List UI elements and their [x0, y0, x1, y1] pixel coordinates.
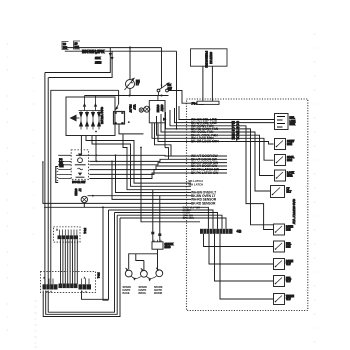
valve coil 2 [85, 111, 89, 130]
svg-text:FAN: FAN [287, 159, 292, 162]
svg-text:SW: SW [168, 86, 173, 90]
svg-text:VLV: VLV [132, 105, 136, 110]
svg-text:WH LATCH: WH LATCH [189, 182, 204, 186]
svg-text:WH: WH [59, 165, 63, 168]
pilot valve K [114, 90, 130, 124]
relay feeder F2 [245, 122, 275, 124]
connector box P7 lower [41, 272, 96, 293]
wire G3-3 [111, 161, 191, 200]
svg-text:WH: WH [75, 45, 79, 49]
svg-text:STAT: STAT [160, 105, 164, 112]
svg-text:BAKE: BAKE [123, 292, 130, 295]
igniter electrode 3 [156, 268, 163, 277]
wire labels group3 [191, 191, 217, 206]
wire thermostat right edge drop [163, 101, 167, 148]
relay K10 [274, 294, 294, 305]
wire G1-3 [170, 110, 245, 126]
svg-text:VLV: VLV [286, 298, 291, 301]
wire S1 output into control [168, 91, 191, 104]
wire TB out 3 [215, 234, 274, 281]
wire G3-4 long left [42, 161, 191, 203]
relay feeder F5 [245, 132, 271, 191]
wire G1-7 [152, 123, 245, 139]
wire W1 L1 hot lead [65, 47, 162, 49]
wire drop pair to left bus [45, 48, 114, 78]
svg-text:VLV: VLV [286, 263, 291, 266]
igniter electrode 2 [141, 268, 148, 277]
wire G2 tails into board [191, 156, 227, 173]
wire module feed 1 [151, 190, 154, 242]
wire left bus 3 to valve feed [51, 90, 119, 285]
relay feeder F1 [245, 119, 275, 121]
wire labels group1 [191, 118, 219, 144]
wire door line 2 [89, 159, 191, 162]
svg-text:BK-PK LATCH SW: BK-PK LATCH SW [191, 171, 219, 175]
wire G4-5 [43, 218, 226, 317]
relay K4 [275, 170, 295, 181]
relay K5 [271, 186, 292, 198]
wire G3-1 [115, 154, 191, 192]
svg-text:BROIL: BROIL [139, 292, 147, 295]
wire G1-4 [166, 112, 246, 129]
wire door stubs left [58, 155, 71, 178]
switch S1 [157, 48, 172, 96]
svg-text:MTR: MTR [287, 175, 293, 178]
relay feeder F3 [245, 126, 274, 230]
svg-text:BK: BK [168, 83, 172, 87]
wire module output [129, 249, 158, 270]
wire mesh N1 [86, 136, 203, 184]
wire G4-4 [46, 215, 222, 314]
wire door line 4 [89, 166, 191, 170]
svg-text:SWITCH: SWITCH [209, 52, 213, 64]
thermostat TH1 [139, 95, 165, 123]
svg-text:P7-1: P7-1 [97, 273, 101, 279]
svg-text:MOD: MOD [165, 245, 171, 249]
spark module SM [152, 240, 174, 249]
wire mesh N2 [92, 136, 203, 187]
label P3 codes [95, 56, 101, 64]
wire TB out 2 [209, 234, 274, 264]
wire door line 1 [76, 154, 191, 156]
svg-text:SPK WH: SPK WH [183, 216, 194, 220]
relay K8 [274, 259, 294, 270]
svg-text:LT: LT [78, 189, 81, 192]
svg-text:WARM: WARM [154, 292, 162, 295]
relay K1 power [275, 114, 296, 130]
svg-text:DOOR SW: DOOR SW [72, 180, 86, 184]
svg-text:PILOT: PILOT [129, 105, 133, 113]
relay K7 [274, 241, 292, 252]
wire W2 neutral lead [65, 50, 177, 52]
relay feeder F6 [245, 135, 274, 175]
wire left bus 2 [47, 78, 49, 286]
terminal bracket P1 [62, 42, 69, 50]
valve coil 3 [91, 111, 95, 130]
gas valve box V1 [66, 96, 115, 136]
svg-text:20: 20 [63, 42, 66, 46]
wire G1-5 [161, 114, 245, 132]
wire lamp bottom [83, 203, 85, 208]
wire door line 3 [89, 163, 191, 165]
buzzer B1 [125, 48, 140, 90]
wire door line 6 [89, 173, 191, 179]
machine control board outline [187, 99, 308, 311]
wire valve bottom 2 [95, 136, 97, 162]
valve coil 1 [79, 111, 83, 130]
terminal bracket P2 [74, 41, 81, 49]
scan speckle columns (decorative) [7, 33, 316, 348]
wire TB out 4 [220, 234, 274, 299]
relay K6 [274, 224, 294, 235]
wire TB out 1 [204, 234, 274, 247]
svg-text:GAS VALVE: GAS VALVE [100, 107, 104, 124]
label MACHINE CONTROL [231, 121, 240, 141]
wire G1-2 [175, 108, 246, 123]
wire G4-2 [82, 210, 214, 299]
svg-text:GAS SUPPLY VLV: GAS SUPPLY VLV [292, 199, 296, 224]
relay feeder F4 [245, 129, 274, 225]
wire lamp feed G3-2 [88, 195, 192, 197]
door switch box DS [71, 150, 88, 184]
oven lamp LT [74, 189, 88, 203]
wire mesh N3 [123, 134, 191, 190]
wire valve bottom 1 [80, 136, 82, 156]
svg-text:OVEN: OVEN [74, 189, 77, 196]
igniter electrode 1 [125, 268, 132, 277]
svg-text:2WH: 2WH [95, 60, 101, 64]
valve pilot arrow [70, 115, 80, 122]
wire G4-1 [44, 207, 208, 229]
svg-text:20: 20 [75, 41, 78, 45]
wire labels group2 [191, 154, 220, 175]
svg-text:BRK: BRK [290, 122, 296, 126]
wire buzzer to bus line [129, 89, 131, 96]
relay K9 [274, 276, 292, 287]
terminal strip TB on board [200, 229, 242, 234]
svg-text:IGN: IGN [286, 246, 291, 249]
wire G1-8 [158, 123, 245, 142]
svg-text:OVEN: OVEN [156, 105, 160, 113]
svg-text:MACHINE: MACHINE [231, 121, 235, 140]
svg-text:BK-OR LOCK MTR: BK-OR LOCK MTR [191, 140, 219, 144]
wire crossing rail [85, 95, 169, 97]
wire labels group4 [183, 206, 201, 221]
pressure switch PS1 [191, 49, 228, 68]
wire T3 to G2-1 [155, 123, 172, 156]
svg-text:PRESSURE: PRESSURE [204, 51, 208, 68]
wire K bottom [119, 124, 144, 134]
svg-text:RLY: RLY [287, 191, 292, 194]
connector P5 upper [54, 227, 81, 242]
relay feeder F8 [245, 142, 274, 145]
wire harness bundle [61, 239, 78, 284]
wire mesh N4 long drop [140, 147, 200, 222]
wire mesh N5 inner drop [102, 206, 108, 300]
wire G1-6 [157, 116, 246, 135]
wire module feed 2 [158, 196, 161, 242]
wire PS1 stem [203, 66, 213, 101]
relay K3 [275, 155, 295, 166]
relay K2 [275, 139, 295, 150]
igniter bottom links [131, 276, 141, 278]
wire door line 5 [89, 170, 191, 175]
svg-text:IGN: IGN [286, 229, 291, 232]
svg-text:CONTROL: CONTROL [236, 121, 240, 141]
label door switch harness [56, 159, 64, 183]
label pilot valve [129, 105, 137, 113]
labels igniters [123, 286, 163, 295]
svg-text:VLV: VLV [286, 280, 291, 283]
wire G4-3 [48, 213, 217, 313]
wire drop W2 to G1 [176, 51, 178, 130]
wire left bus 1 [44, 73, 46, 286]
svg-text:LY: LY [136, 82, 139, 86]
wire G1-1 [179, 106, 245, 120]
relay feeder F7 [245, 138, 274, 160]
PS1 connector foot [192, 101, 219, 104]
svg-text:P5-1: P5-1 [83, 228, 87, 234]
svg-text:BK-WH,1PK: BK-WH,1PK [82, 49, 105, 54]
igniter gap marks [133, 278, 151, 282]
wire T4 to G2-2 [165, 148, 169, 160]
valve coil 4 [97, 111, 101, 130]
svg-text:+B: +B [237, 230, 242, 234]
svg-text:FAN: FAN [287, 143, 292, 146]
